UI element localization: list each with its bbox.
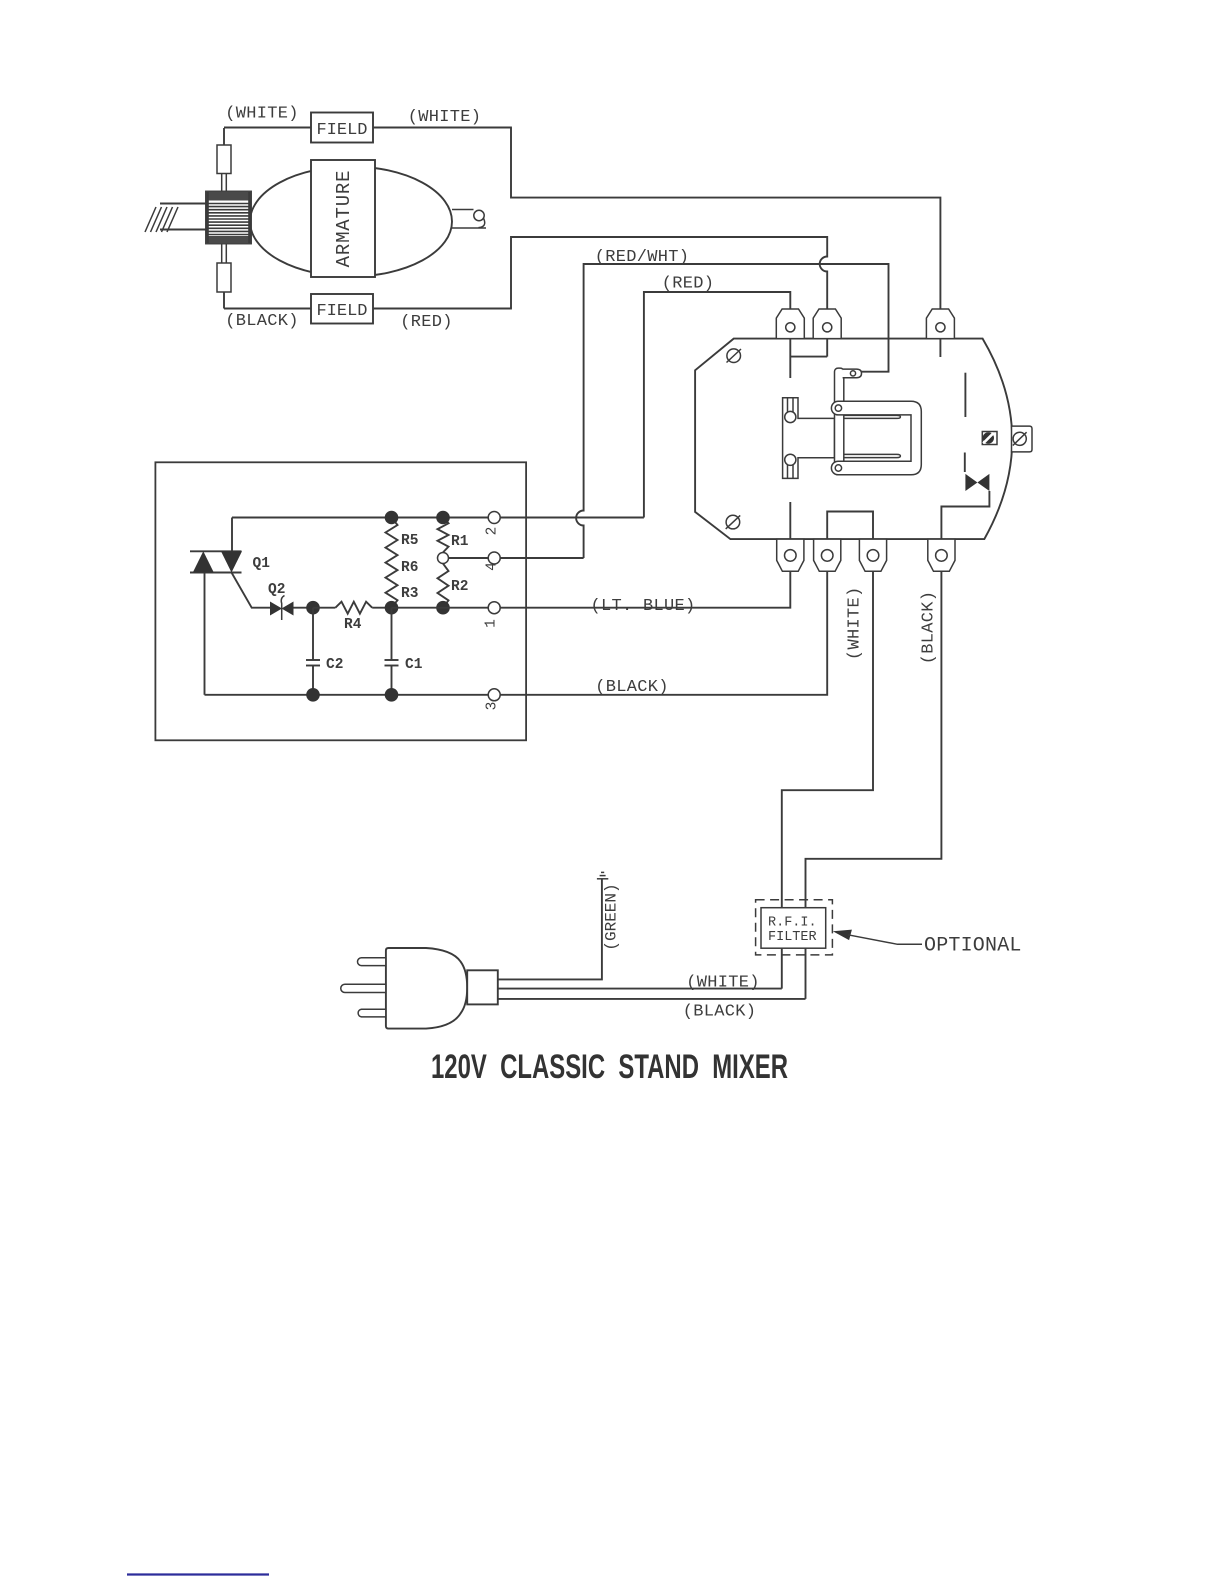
field coil bottom box [311,294,373,324]
svg-text:4: 4 [485,562,501,571]
armature label box [311,160,375,277]
svg-text:FIELD: FIELD [316,121,367,140]
wire black: governor to RFI filter [806,571,942,999]
svg-text:OPTIONAL: OPTIONAL [924,935,1022,958]
svg-text:(BLACK): (BLACK) [595,678,669,697]
node: C1 bottom [385,688,399,702]
svg-text:3: 3 [485,702,501,711]
svg-text:FILTER: FILTER [768,930,817,945]
svg-text:R5: R5 [401,533,418,549]
capacitor C2 [306,608,320,695]
internal wire: terminal 3 stub [939,339,941,357]
terminal 4 (circle) [488,552,500,564]
svg-text:FIELD: FIELD [316,302,367,321]
power plug body [386,948,467,1029]
svg-text:1: 1 [484,619,500,628]
motor shaft [145,204,206,233]
wire: terminal 3 row out (BLACK) [500,571,827,695]
bottom brush [217,244,231,309]
wire [372,607,391,609]
resistor R2 [438,564,449,608]
wire [313,607,335,609]
wire: terminal 4 tap to R1/R2 [449,557,489,559]
svg-text:ARMATURE: ARMATURE [333,170,355,268]
white cord wire [498,988,782,990]
wire white: motor to governor terminal [511,128,940,311]
wire: field top to right [373,127,512,129]
node: top bus / R1 [436,511,450,525]
wire red: field bottom to governor terminal with hop [511,237,827,312]
wire: R3 junction to R2 junction to terminal 1 [392,607,489,609]
svg-text:(RED/WHT): (RED/WHT) [595,248,690,267]
plug prong bottom [358,1009,386,1017]
wire: triac MT2 top bus [232,517,488,519]
svg-text:R4: R4 [344,617,362,633]
screw top-left [727,349,742,363]
upper slide slot [844,415,901,418]
governor bottom terminal 4 [928,539,955,571]
svg-text:Q1: Q1 [253,556,271,572]
svg-text:C1: C1 [405,657,423,673]
pivot hole lower [835,465,841,471]
pivot hole upper [835,405,841,411]
svg-text:(WHITE): (WHITE) [846,587,865,661]
svg-text:Q2: Q2 [268,582,285,598]
bow-tie contact symbol [965,474,989,491]
internal wire: bottom contact stub [789,502,791,539]
node: R3 bottom junction [385,601,399,615]
right mounting tab [1012,426,1033,452]
governor top terminal 2 [813,309,841,339]
resistors R5 R6 R3 (series chain) [386,518,398,608]
svg-text:2: 2 [485,527,501,536]
armature body (oval) [250,167,452,277]
governor plate outline [695,339,1012,539]
svg-text:R3: R3 [401,586,418,602]
node: R1/R2 tap (open) [438,553,449,564]
plug prong middle [341,984,386,992]
wire red/wht: board terminal 4 to governor arm with hop [576,264,888,558]
internal wire: bow-tie to bottom terminal 4 [941,491,989,539]
wire: bottom bus [205,694,489,696]
plug prong top [357,958,385,966]
wire red: board terminal 2 to governor terminal [644,292,790,518]
footer blue rule [127,1573,269,1575]
governor bottom terminal 3 [859,539,886,571]
svg-text:R1: R1 [451,534,469,550]
wire white: governor to RFI filter [782,571,873,988]
svg-text:(RED): (RED) [400,313,453,332]
terminal 2 (circle) [488,512,500,524]
field coil top box [311,113,373,143]
governor bottom terminal 1 [777,539,804,571]
hook finger on arm [843,369,862,378]
terminal 3 (circle) [488,689,500,701]
svg-text:(BLACK): (BLACK) [683,1003,757,1022]
wire red/wht inside plate to hook [862,339,889,372]
node: C2 bottom [306,688,320,702]
contact gap segment upper [964,373,966,417]
svg-text:R6: R6 [401,560,418,576]
top brush [217,128,231,192]
pivot arm [835,368,844,474]
commutator [206,192,251,244]
internal wire: bottom terminals 2-3 link [827,512,873,540]
T-bracket (field plate) [783,398,835,479]
lower slide slot [844,454,901,457]
wire: terminal 1 row out (LT. BLUE) [500,571,790,608]
governor top terminal 1 [776,309,804,339]
wire: top brush to field top [224,127,311,129]
governor top terminal 3 [926,309,954,339]
svg-text:(GREEN): (GREEN) [603,883,621,950]
wire: terminal 2 row out [500,517,644,519]
adjust screw symbol (square) [982,432,997,445]
wire: field bottom to right [373,308,512,310]
wire: terminal 4 row out [500,557,583,559]
armature right stub terminal [452,210,486,229]
svg-text:(RED): (RED) [662,275,715,294]
svg-text:C2: C2 [326,657,343,673]
diac Q2 [270,596,313,621]
internal wire: terminals 1-2 link and fixed contact [790,339,827,378]
screw bottom-left [726,515,741,529]
control board outline [155,462,526,740]
wire: bottom brush to field bottom [224,308,311,310]
svg-text:120V CLASSIC STAND MIXER: 120V CLASSIC STAND MIXER [431,1048,788,1086]
plug neck [467,970,498,1004]
terminal 1 (circle) [488,602,500,614]
optional leader arrow [833,930,922,945]
svg-text:(WHITE): (WHITE) [408,108,482,127]
svg-text:R.F.I.: R.F.I. [768,916,817,931]
node: R2 bottom junction [436,601,450,615]
svg-text:(BLACK): (BLACK) [920,591,939,665]
RFI filter dashed box [756,900,833,955]
node: diac/C2 junction [306,601,320,615]
contact gap segment lower [964,453,966,473]
governor lever frame (staple) [831,401,921,475]
svg-text:R2: R2 [451,579,468,595]
RFI filter inner box [761,908,826,949]
governor bottom terminal 2 [814,539,841,571]
black cord wire [498,998,806,1000]
capacitor C1 [385,608,399,695]
triac Q1 [190,518,270,695]
node: top bus / R5 [385,511,399,525]
ground symbol [597,872,608,878]
svg-text:(WHITE): (WHITE) [686,974,760,993]
resistor R4 [335,602,372,614]
svg-text:(BLACK): (BLACK) [225,312,299,331]
svg-text:(LT. BLUE): (LT. BLUE) [590,597,695,616]
svg-text:(WHITE): (WHITE) [225,105,299,124]
green wire [498,879,602,980]
resistor R1 [438,518,449,553]
